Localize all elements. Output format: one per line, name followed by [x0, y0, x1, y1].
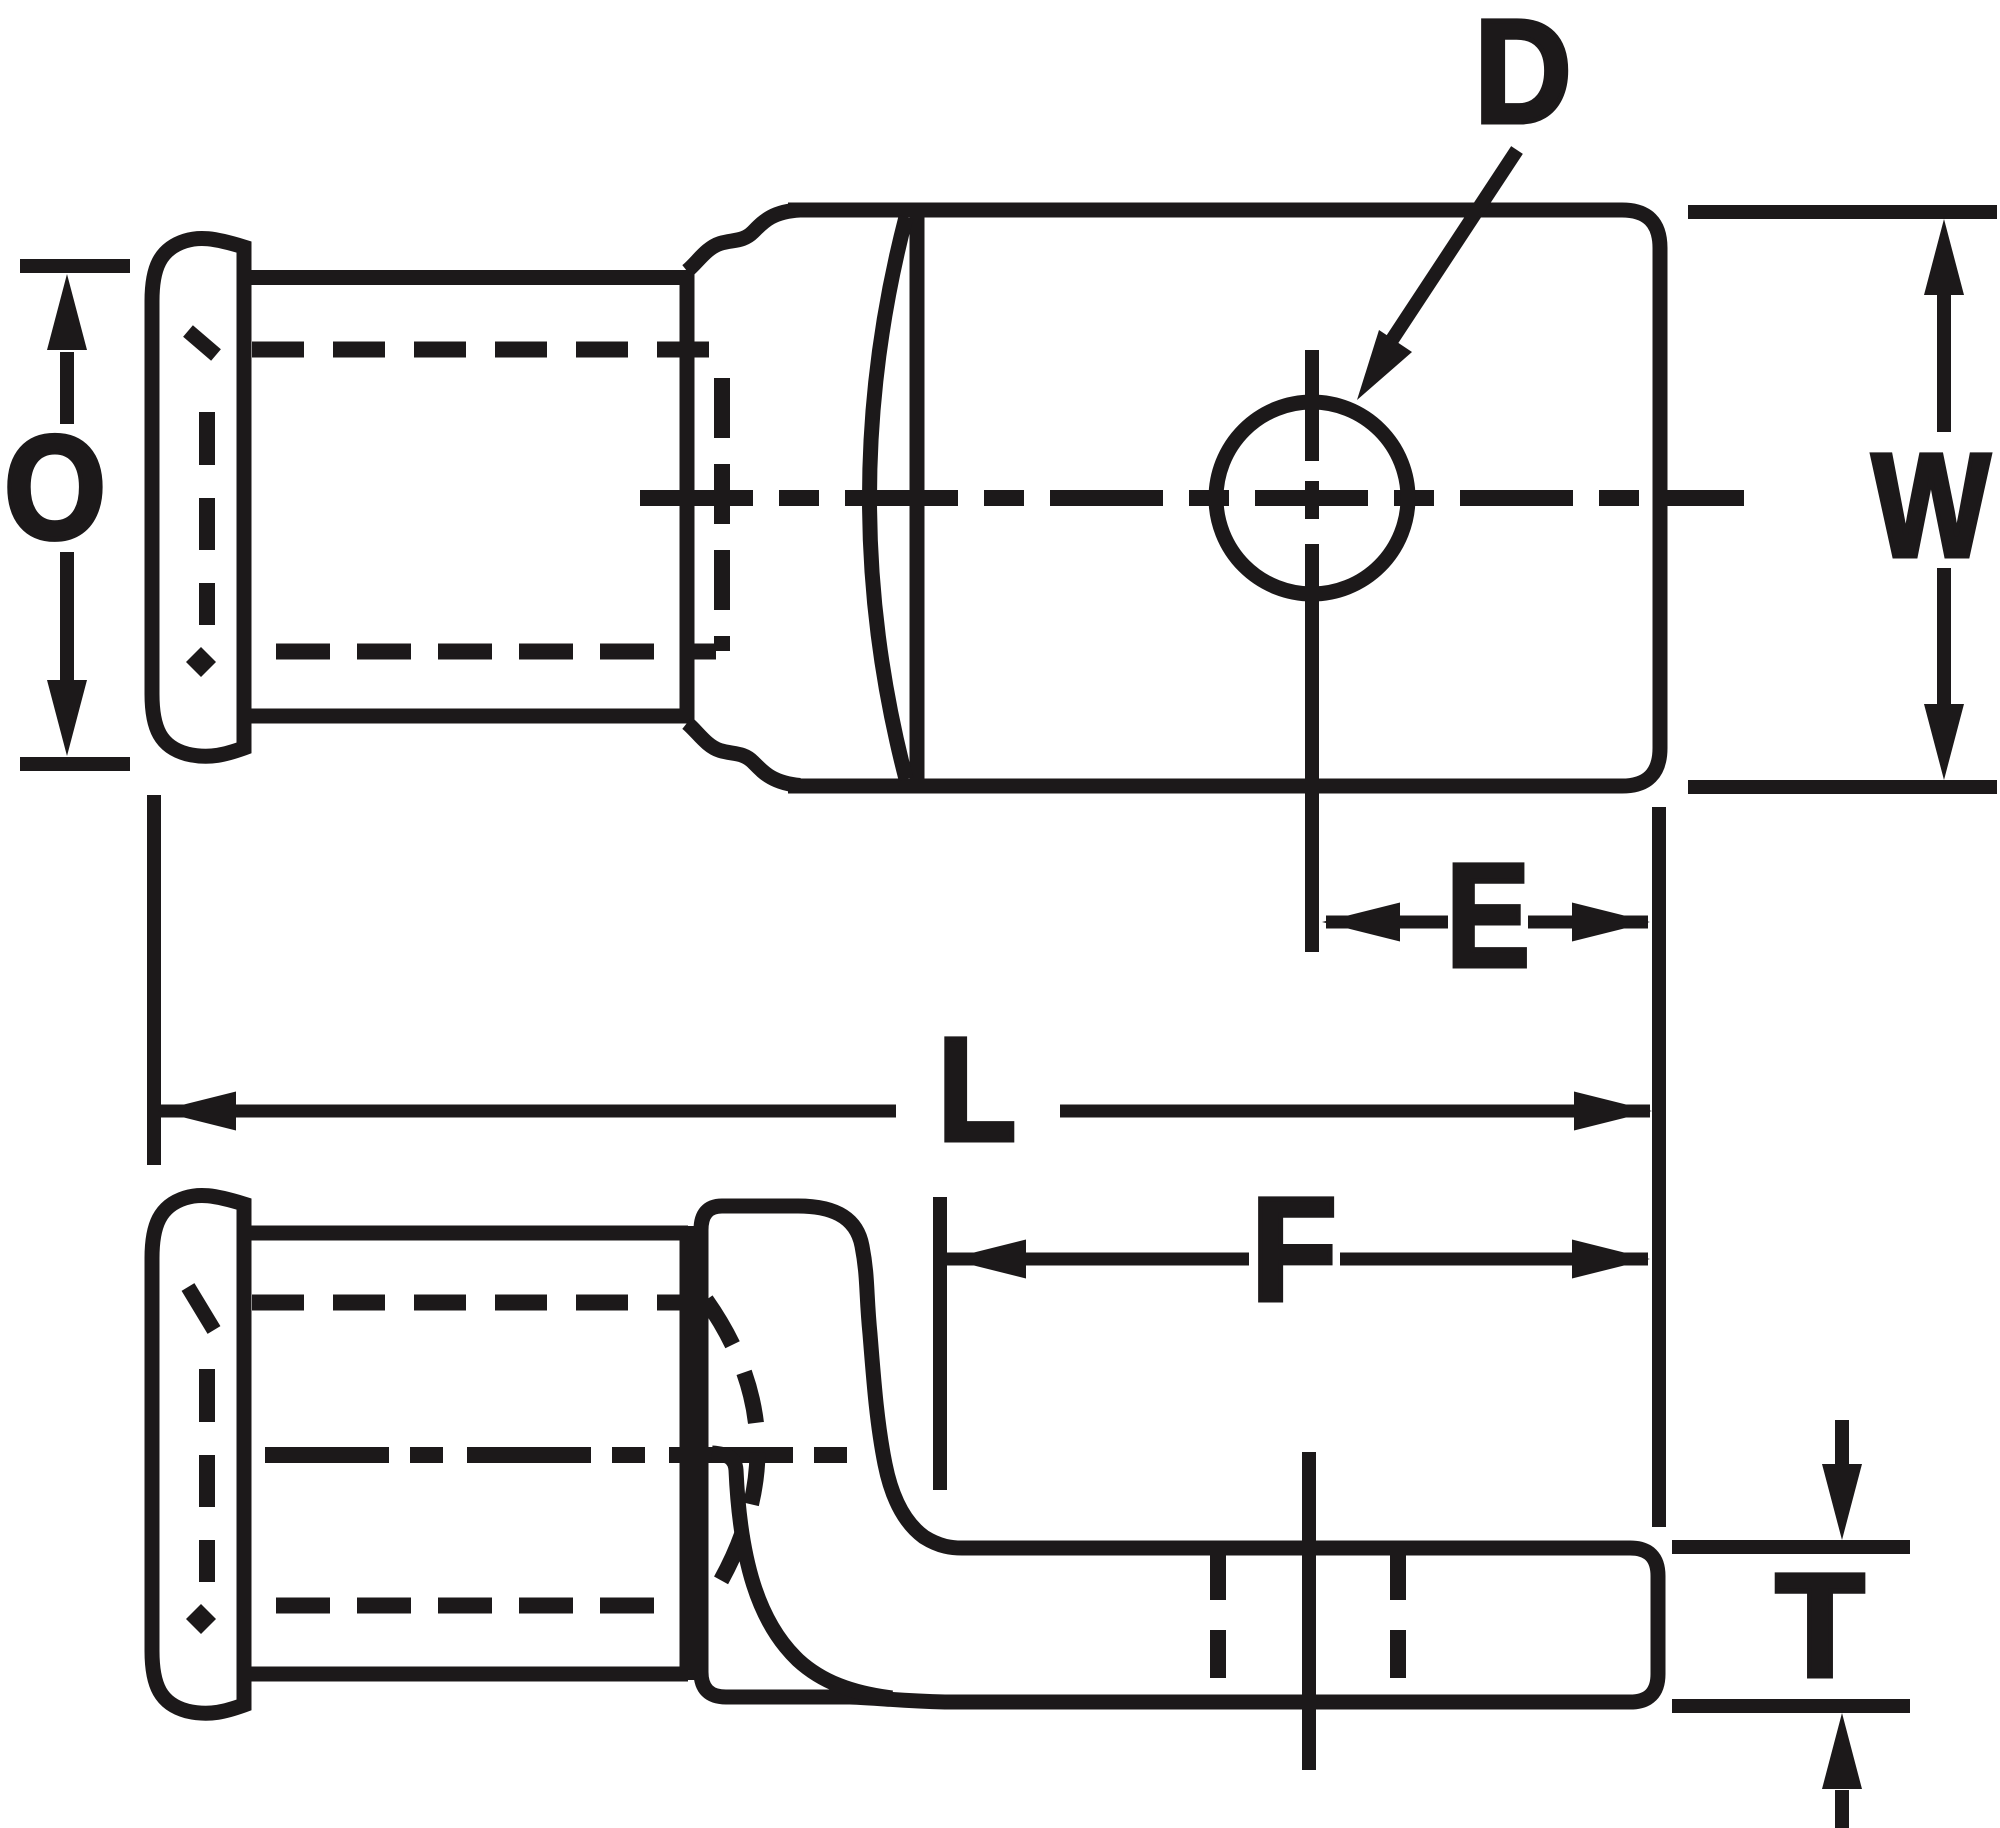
svg-text:F: F — [1251, 1168, 1337, 1332]
crimp end vertical line (top view) — [680, 270, 695, 722]
transition wave bottom (top view) — [687, 723, 800, 786]
T dimension arrow down — [1835, 1420, 1849, 1470]
W dimension arrow up — [1937, 290, 1951, 432]
leader arrow for D — [1384, 150, 1517, 352]
W top extension line — [1688, 205, 1997, 219]
barrel bottom hidden dashed line (side view) — [276, 1598, 700, 1614]
barrel top line (side view) — [248, 1226, 688, 1241]
transition wave top (top view) — [687, 210, 800, 271]
inner bend curve (side view) — [712, 1453, 892, 1698]
crimp lens chord line (top view) — [910, 210, 925, 786]
W dimension arrow down — [1937, 568, 1951, 710]
svg-text:W: W — [1872, 423, 1990, 587]
cap hidden diamond dot (top view) — [186, 647, 216, 677]
barrel flared cap (top view) — [152, 238, 244, 756]
barrel bottom line (top view) — [248, 709, 688, 724]
T bottom extension line — [1672, 1699, 1910, 1713]
part centerline (side view) — [265, 1447, 855, 1463]
barrel bottom line (side view) — [248, 1667, 688, 1682]
tongue plate outline (top view) — [788, 210, 1660, 786]
hole center line (side view) — [1302, 1452, 1316, 1770]
part centerline (top view) — [640, 490, 1744, 506]
cap hidden diamond dot (side view) — [186, 1604, 216, 1634]
hole crosshair vertical (top view) — [1305, 350, 1319, 952]
crimp inner hidden vertical dashed (top view) — [714, 378, 730, 651]
cap hidden line dashes (side view) — [188, 1287, 214, 1582]
F dimension line with outward arrows — [946, 1253, 1249, 1266]
W bottom extension line — [1688, 780, 1997, 794]
O dimension arrow down — [60, 552, 74, 680]
O bottom tick — [20, 757, 130, 771]
svg-text:T: T — [1776, 1543, 1865, 1707]
T top extension line — [1672, 1540, 1910, 1554]
right shared extension line (E, L, F) — [1652, 807, 1666, 1527]
hole hidden edge dashes left (side view) — [1210, 1552, 1226, 1694]
L left extension line — [147, 795, 161, 1165]
barrel bottom hidden dashed line (top view) — [276, 644, 716, 660]
crimp inner hidden dashed arc (side view) — [706, 1300, 758, 1596]
L dimension line with outward arrows — [160, 1105, 896, 1118]
bent tongue flag outline (side view) — [701, 1206, 1658, 1702]
crimp end vertical line (side view) — [680, 1226, 695, 1680]
barrel top line (top view) — [248, 270, 688, 285]
svg-text:O: O — [4, 406, 106, 570]
svg-text:D: D — [1474, 0, 1571, 153]
cap hidden line dashes (top view) — [188, 331, 216, 625]
O dimension arrow up — [60, 352, 74, 424]
crimp lens arc (top view) — [870, 217, 907, 779]
barrel top hidden dashed line (top view) — [252, 342, 716, 358]
barrel top hidden dashed line (side view) — [252, 1295, 700, 1311]
E dimension line with outward arrows — [1326, 916, 1448, 929]
T dimension arrow up — [1835, 1790, 1849, 1828]
O top tick — [20, 259, 130, 273]
barrel flared cap (side view) — [152, 1195, 244, 1713]
hole circle D (top view) — [1216, 402, 1408, 594]
svg-text:E: E — [1446, 833, 1529, 997]
svg-text:L: L — [938, 1008, 1016, 1172]
F left extension line — [933, 1197, 947, 1490]
hole hidden edge dashes right (side view) — [1390, 1552, 1406, 1694]
